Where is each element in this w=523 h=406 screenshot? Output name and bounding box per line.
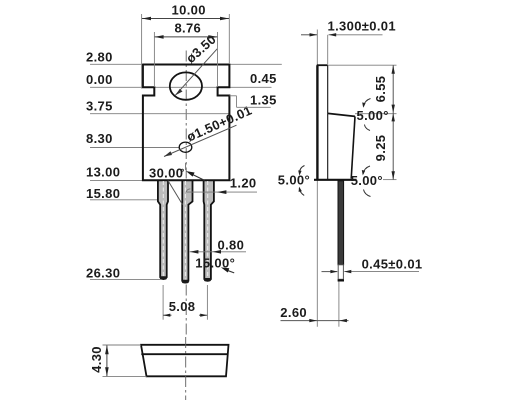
- dimension 8.76: [154, 21, 217, 87]
- ordinate leader 0.00 (hole center line): [86, 72, 272, 88]
- angle annotation 5.00 deg (body top, right): [357, 99, 389, 131]
- right step annotation 0.45: [250, 71, 277, 86]
- svg-text:2.60: 2.60: [280, 305, 307, 320]
- 30 degree chamfer indicator line: [168, 181, 183, 205]
- svg-text:30.00: 30.00: [149, 166, 183, 181]
- dimension 1.20: [186, 175, 257, 194]
- dimension 1.300±0.01: [301, 18, 396, 64]
- right leg (front view): [204, 180, 214, 281]
- side view tab and body outline: [314, 65, 357, 180]
- front view package body outline: [143, 64, 230, 181]
- svg-text:8.30: 8.30: [86, 131, 113, 146]
- side view leg: [338, 181, 344, 282]
- extension line bottom of body: [383, 179, 397, 181]
- svg-text:26.30: 26.30: [86, 266, 120, 281]
- angle annotation 5.00 deg (tab back, left): [278, 166, 310, 196]
- svg-text:1.20: 1.20: [230, 175, 257, 190]
- svg-text:0.45±0.01: 0.45±0.01: [362, 257, 423, 272]
- svg-text:5.00°: 5.00°: [351, 173, 383, 188]
- long extension line (tab back datum): [316, 30, 318, 327]
- svg-text:5.00°: 5.00°: [278, 173, 310, 188]
- center line vertical (front view datum): [185, 51, 187, 337]
- dimension 4.30: [89, 345, 147, 376]
- ordinate leader 13.00: [86, 165, 143, 181]
- small hole ø1.50: [179, 142, 192, 152]
- svg-text:5.08: 5.08: [169, 299, 196, 314]
- mounting hole ø3.50: [170, 72, 202, 99]
- dimension 2.60: [280, 305, 348, 322]
- small hole leader ø1.50+0.01: [164, 103, 254, 157]
- svg-text:15.80: 15.80: [86, 186, 120, 201]
- angle annotation 5.00 deg (body bottom, right): [351, 166, 383, 197]
- dimension 6.55: [373, 65, 395, 179]
- svg-text:0.00: 0.00: [86, 72, 113, 87]
- svg-text:5.00°: 5.00°: [357, 108, 389, 123]
- svg-text:4.30: 4.30: [89, 346, 104, 373]
- right step annotation 1.35: [230, 93, 277, 108]
- dimension 0.80: [190, 238, 246, 254]
- svg-text:1.300±0.01: 1.300±0.01: [328, 18, 396, 33]
- dimension 9.25: [373, 113, 395, 179]
- svg-text:13.00: 13.00: [86, 165, 120, 180]
- svg-text:9.25: 9.25: [373, 135, 388, 162]
- ordinate leader 2.80: [86, 49, 282, 64]
- svg-text:10.00: 10.00: [172, 3, 206, 18]
- ordinate leader 26.30: [86, 266, 160, 281]
- svg-text:0.45: 0.45: [250, 71, 277, 86]
- extension line top of body: [355, 113, 397, 115]
- svg-text:6.55: 6.55: [373, 76, 388, 103]
- middle leg (front view): [182, 180, 193, 283]
- angle annotation 30.00 with leader: [149, 163, 205, 181]
- dimension 5.08: [163, 285, 207, 320]
- svg-text:8.76: 8.76: [174, 21, 201, 36]
- dimension 0.45±0.01: [322, 257, 423, 274]
- ordinate leader 15.80: [86, 186, 158, 201]
- svg-text:2.80: 2.80: [86, 49, 113, 64]
- dimension 10.00: [142, 3, 230, 89]
- svg-text:0.80: 0.80: [218, 238, 245, 253]
- ordinate leader 3.75: [86, 98, 229, 113]
- bottom view package outline: [141, 345, 229, 377]
- leg extension line down to 2.60 dim: [338, 282, 340, 327]
- svg-text:1.35: 1.35: [250, 93, 277, 108]
- extension line top of tab: [328, 64, 397, 66]
- angle annotation 15.00 deg: [195, 256, 235, 273]
- bottom view center line: [185, 337, 187, 400]
- svg-text:3.75: 3.75: [86, 98, 113, 113]
- ordinate leader 8.30: [86, 131, 179, 147]
- hole leader line ø3.50: [175, 31, 219, 95]
- left leg (front view): [158, 180, 168, 279]
